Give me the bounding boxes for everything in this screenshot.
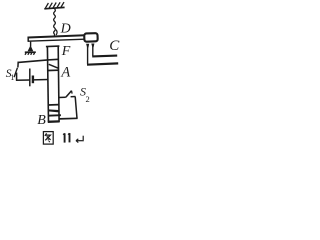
svg-text:B: B bbox=[37, 113, 46, 128]
svg-text:1: 1 bbox=[10, 73, 14, 82]
caption character 图 bbox=[43, 132, 53, 145]
switch S2 bbox=[59, 91, 78, 119]
caption return mark bbox=[76, 136, 84, 143]
switch S1 bbox=[14, 62, 18, 81]
wire switch to battery bbox=[16, 79, 30, 81]
wire from left contact bbox=[87, 47, 89, 64]
svg-text:D: D bbox=[60, 21, 71, 36]
svg-text:2: 2 bbox=[86, 94, 90, 104]
svg-text:F: F bbox=[61, 44, 71, 59]
capacitor C upper plate bbox=[92, 55, 117, 58]
wire battery to tube bbox=[33, 79, 48, 81]
contact A wedge bbox=[48, 64, 58, 70]
contact tab right bbox=[91, 44, 94, 48]
svg-text:A: A bbox=[60, 64, 70, 80]
glass tube bbox=[46, 46, 60, 122]
wire from right contact bbox=[92, 47, 94, 56]
mercury level stripes at B bbox=[48, 105, 61, 122]
armature block bbox=[84, 33, 98, 42]
lever bar bbox=[28, 35, 85, 42]
contact tab left bbox=[86, 44, 89, 48]
caption text 11 bbox=[65, 133, 70, 143]
capacitor C lower plate bbox=[87, 63, 118, 64]
ceiling mount bbox=[44, 2, 64, 9]
battery cell bbox=[30, 69, 33, 87]
wire to contact A bbox=[18, 59, 58, 62]
svg-text:C: C bbox=[109, 38, 120, 54]
fulcrum pivot bbox=[25, 42, 36, 55]
spring lower hook bbox=[55, 30, 58, 35]
spring D bbox=[54, 9, 56, 37]
